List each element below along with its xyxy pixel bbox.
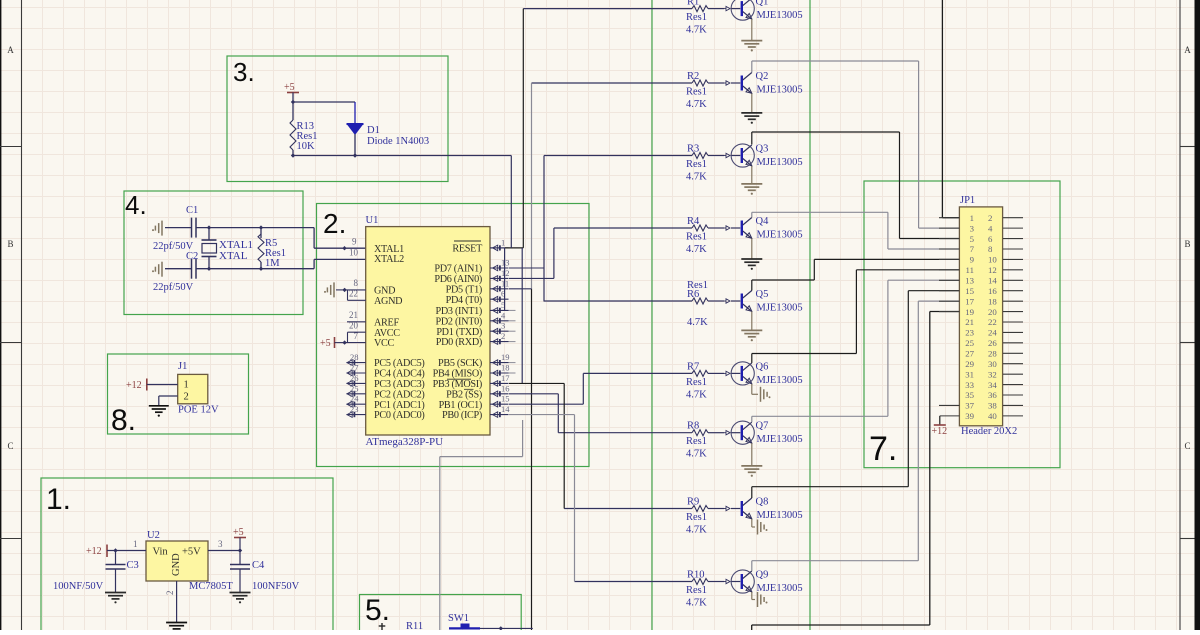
svg-text:38: 38 — [988, 401, 997, 411]
svg-text:R9: R9 — [687, 497, 699, 508]
svg-text:C3: C3 — [127, 560, 139, 571]
svg-text:+5: +5 — [320, 338, 331, 349]
svg-text:AVCC: AVCC — [374, 328, 400, 339]
svg-text:10: 10 — [349, 248, 359, 258]
svg-text:18: 18 — [988, 296, 997, 306]
svg-text:Res1: Res1 — [686, 377, 707, 388]
svg-text:14: 14 — [501, 404, 510, 414]
svg-text:4.7K: 4.7K — [686, 389, 707, 400]
svg-text:25: 25 — [965, 338, 974, 348]
svg-text:5.: 5. — [365, 594, 390, 627]
svg-text:A: A — [1184, 45, 1191, 55]
svg-text:Q6: Q6 — [756, 361, 769, 372]
svg-text:PC3 (ADC3): PC3 (ADC3) — [374, 379, 425, 390]
svg-text:8.: 8. — [111, 404, 136, 437]
svg-text:5: 5 — [970, 234, 975, 244]
svg-text:C2: C2 — [186, 251, 198, 262]
svg-text:PD7 (AIN1): PD7 (AIN1) — [434, 264, 482, 275]
svg-text:XTAL2: XTAL2 — [374, 254, 404, 265]
svg-text:B: B — [1184, 239, 1190, 249]
svg-text:8: 8 — [988, 244, 993, 254]
svg-text:R1: R1 — [687, 0, 699, 8]
svg-text:4.7K: 4.7K — [687, 317, 708, 328]
svg-text:PC2 (ADC2): PC2 (ADC2) — [374, 389, 425, 400]
svg-text:10: 10 — [988, 255, 997, 265]
svg-text:36: 36 — [988, 390, 997, 400]
svg-text:+5V: +5V — [182, 547, 201, 558]
svg-text:Res1: Res1 — [686, 585, 707, 596]
svg-text:28: 28 — [350, 352, 359, 362]
svg-text:U1: U1 — [366, 215, 379, 226]
svg-text:JP1: JP1 — [960, 195, 975, 206]
svg-text:2: 2 — [165, 591, 175, 596]
svg-text:33: 33 — [965, 380, 974, 390]
svg-text:9: 9 — [970, 255, 975, 265]
svg-text:PD6 (AIN0): PD6 (AIN0) — [434, 274, 482, 285]
svg-text:Res1: Res1 — [686, 436, 707, 447]
svg-text:MJE13005: MJE13005 — [757, 85, 803, 96]
svg-text:7.: 7. — [869, 430, 897, 468]
svg-text:C4: C4 — [252, 560, 265, 571]
svg-text:37: 37 — [965, 401, 974, 411]
svg-text:4.: 4. — [125, 190, 147, 220]
svg-text:PD4 (T0): PD4 (T0) — [446, 295, 482, 306]
svg-text:6: 6 — [988, 234, 993, 244]
svg-text:POE 12V: POE 12V — [178, 405, 219, 416]
svg-text:R4: R4 — [687, 216, 700, 227]
svg-text:RESET: RESET — [452, 244, 483, 255]
svg-text:MJE13005: MJE13005 — [757, 583, 803, 594]
svg-text:+5: +5 — [233, 527, 244, 538]
svg-text:3: 3 — [970, 223, 975, 233]
svg-text:27: 27 — [350, 363, 359, 373]
svg-text:Res1: Res1 — [686, 12, 707, 23]
svg-text:39: 39 — [965, 411, 974, 421]
svg-text:28: 28 — [988, 348, 997, 358]
svg-text:2: 2 — [184, 392, 189, 403]
svg-text:22: 22 — [988, 317, 997, 327]
svg-text:C1: C1 — [186, 205, 198, 216]
svg-text:17: 17 — [501, 373, 510, 383]
svg-text:26: 26 — [988, 338, 997, 348]
svg-text:Q3: Q3 — [756, 144, 769, 155]
svg-text:25: 25 — [350, 383, 359, 393]
svg-text:GND: GND — [171, 553, 182, 576]
svg-text:R8: R8 — [687, 421, 699, 432]
svg-text:16: 16 — [501, 383, 510, 393]
svg-text:32: 32 — [988, 369, 997, 379]
svg-text:AGND: AGND — [374, 296, 402, 307]
svg-text:MC7805T: MC7805T — [189, 581, 233, 592]
svg-text:D1: D1 — [367, 125, 380, 136]
svg-text:R10: R10 — [687, 570, 705, 581]
svg-text:19: 19 — [965, 307, 974, 317]
svg-text:34: 34 — [988, 380, 997, 390]
svg-text:3: 3 — [501, 321, 505, 331]
svg-text:4.7K: 4.7K — [686, 525, 707, 536]
svg-text:Q8: Q8 — [756, 497, 769, 508]
svg-text:R11: R11 — [406, 621, 423, 630]
svg-text:MJE13005: MJE13005 — [757, 510, 803, 521]
svg-text:4.7K: 4.7K — [686, 99, 707, 110]
svg-text:Q4: Q4 — [756, 216, 770, 227]
svg-text:VCC: VCC — [374, 338, 395, 349]
svg-text:C: C — [1184, 441, 1190, 451]
svg-text:+12: +12 — [932, 426, 948, 437]
svg-text:R6: R6 — [687, 289, 699, 300]
svg-text:A: A — [7, 45, 14, 55]
svg-text:PD5 (T1): PD5 (T1) — [446, 284, 482, 295]
svg-text:31: 31 — [965, 369, 974, 379]
svg-text:14: 14 — [988, 275, 997, 285]
svg-text:C: C — [7, 441, 13, 451]
svg-text:26: 26 — [350, 373, 359, 383]
svg-text:12: 12 — [988, 265, 997, 275]
svg-text:R3: R3 — [687, 144, 699, 155]
svg-text:18: 18 — [501, 363, 510, 373]
svg-text:35: 35 — [965, 390, 974, 400]
svg-text:Q9: Q9 — [756, 570, 769, 581]
svg-text:20: 20 — [988, 307, 997, 317]
svg-text:PD1 (TXD): PD1 (TXD) — [436, 327, 482, 338]
svg-text:MJE13005: MJE13005 — [757, 157, 803, 168]
svg-text:PB3 (MOSI): PB3 (MOSI) — [433, 379, 482, 390]
svg-text:ATmega328P-PU: ATmega328P-PU — [366, 436, 444, 448]
svg-text:24: 24 — [988, 328, 997, 338]
svg-text:2.: 2. — [323, 208, 346, 239]
svg-text:4.7K: 4.7K — [686, 449, 707, 460]
svg-text:PC5 (ADC5): PC5 (ADC5) — [374, 358, 425, 369]
svg-text:4.7K: 4.7K — [686, 172, 707, 183]
svg-text:PD2 (INT0): PD2 (INT0) — [435, 316, 482, 327]
svg-text:Res1: Res1 — [686, 159, 707, 170]
svg-text:19: 19 — [501, 352, 510, 362]
svg-text:MJE13005: MJE13005 — [757, 375, 803, 386]
svg-text:Q1: Q1 — [756, 0, 769, 8]
svg-text:B: B — [7, 239, 13, 249]
svg-text:PB5 (SCK): PB5 (SCK) — [438, 358, 482, 369]
svg-text:R7: R7 — [687, 361, 699, 372]
svg-text:+12: +12 — [126, 380, 142, 391]
svg-text:7: 7 — [970, 244, 975, 254]
svg-text:1: 1 — [970, 213, 974, 223]
svg-text:PD3 (INT1): PD3 (INT1) — [435, 306, 482, 317]
svg-text:27: 27 — [965, 348, 974, 358]
svg-text:10K: 10K — [297, 141, 316, 152]
svg-text:J1: J1 — [178, 361, 187, 372]
svg-text:1: 1 — [184, 380, 189, 391]
svg-text:MJE13005: MJE13005 — [757, 230, 803, 241]
svg-text:2: 2 — [501, 331, 505, 341]
svg-text:4.7K: 4.7K — [686, 244, 707, 255]
svg-text:MJE13005: MJE13005 — [757, 10, 803, 21]
svg-text:AREF: AREF — [374, 317, 399, 328]
svg-text:PB4 (MISO): PB4 (MISO) — [433, 369, 482, 380]
svg-text:Q5: Q5 — [756, 289, 769, 300]
svg-text:Header 20X2: Header 20X2 — [961, 426, 1017, 437]
svg-text:3: 3 — [218, 539, 223, 549]
svg-text:Diode 1N4003: Diode 1N4003 — [367, 136, 429, 147]
svg-text:SW1: SW1 — [448, 613, 469, 624]
svg-text:13: 13 — [501, 258, 510, 268]
svg-text:100NF/50V: 100NF/50V — [53, 581, 104, 592]
svg-text:MJE13005: MJE13005 — [757, 303, 803, 314]
svg-text:16: 16 — [988, 286, 997, 296]
svg-text:21: 21 — [349, 310, 358, 320]
svg-text:3.: 3. — [233, 57, 255, 87]
svg-text:PC0 (ADC0): PC0 (ADC0) — [374, 410, 425, 421]
svg-text:Vin: Vin — [153, 547, 169, 558]
svg-text:+5: +5 — [284, 82, 295, 93]
svg-text:22pf/50V: 22pf/50V — [153, 282, 194, 293]
svg-text:30: 30 — [988, 359, 997, 369]
svg-text:U2: U2 — [147, 530, 160, 541]
svg-text:100NF50V: 100NF50V — [252, 581, 300, 592]
svg-text:PB2 (SS): PB2 (SS) — [446, 389, 482, 400]
svg-text:PB1 (OC1): PB1 (OC1) — [439, 400, 482, 411]
svg-text:Q2: Q2 — [756, 71, 769, 82]
svg-text:GND: GND — [374, 286, 395, 297]
svg-text:40: 40 — [988, 411, 997, 421]
svg-text:12: 12 — [501, 268, 510, 278]
svg-text:23: 23 — [350, 404, 359, 414]
svg-text:9: 9 — [352, 237, 357, 247]
svg-text:1: 1 — [133, 539, 138, 549]
svg-text:XTAL: XTAL — [219, 250, 248, 262]
svg-text:4.7K: 4.7K — [686, 25, 707, 36]
svg-text:2: 2 — [988, 213, 992, 223]
svg-text:15: 15 — [501, 394, 510, 404]
svg-text:PC1 (ADC1): PC1 (ADC1) — [374, 400, 425, 411]
svg-text:8: 8 — [354, 278, 359, 288]
svg-text:29: 29 — [965, 359, 974, 369]
svg-text:21: 21 — [965, 317, 974, 327]
svg-text:+12: +12 — [86, 546, 102, 557]
svg-text:17: 17 — [965, 296, 974, 306]
svg-text:R2: R2 — [687, 71, 699, 82]
svg-text:Res1: Res1 — [686, 232, 707, 243]
svg-text:4.7K: 4.7K — [686, 598, 707, 609]
svg-text:Q7: Q7 — [756, 421, 769, 432]
svg-text:XTAL1: XTAL1 — [374, 244, 404, 255]
svg-text:1M: 1M — [265, 258, 280, 269]
svg-text:PC4 (ADC4): PC4 (ADC4) — [374, 369, 425, 380]
svg-text:13: 13 — [965, 275, 974, 285]
svg-text:PB0 (ICP): PB0 (ICP) — [442, 410, 482, 421]
svg-text:23: 23 — [965, 328, 974, 338]
svg-text:4: 4 — [988, 223, 993, 233]
svg-text:24: 24 — [350, 394, 359, 404]
svg-text:PD0 (RXD): PD0 (RXD) — [436, 337, 482, 348]
svg-text:Res1: Res1 — [686, 87, 707, 98]
svg-text:Res1: Res1 — [686, 512, 707, 523]
svg-text:1.: 1. — [46, 483, 71, 516]
svg-text:11: 11 — [966, 265, 974, 275]
svg-text:MJE13005: MJE13005 — [757, 434, 803, 445]
svg-text:15: 15 — [965, 286, 974, 296]
svg-text:1: 1 — [501, 237, 505, 247]
